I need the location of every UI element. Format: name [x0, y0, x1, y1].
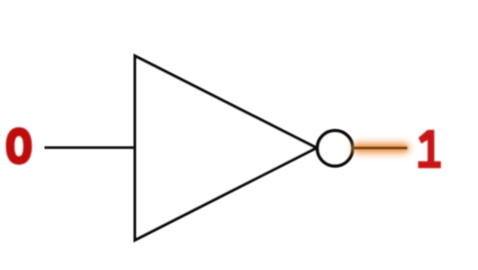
bubble (inversion circle) on inverter output — [317, 131, 352, 166]
wire: output wire core from bubble to label 1 — [353, 147, 407, 149]
wire: input wire from label 0 to inverter — [45, 146, 136, 149]
inverter U1 (NOT gate triangle) — [135, 56, 317, 240]
wire: output wire glow (logic-high highlight, outer halo) — [353, 143, 410, 154]
wire: output wire glow (inner bright band) — [354, 145, 409, 151]
output label "1" (logic high) — [418, 130, 441, 168]
input label "0" (logic low) — [6, 127, 32, 164]
